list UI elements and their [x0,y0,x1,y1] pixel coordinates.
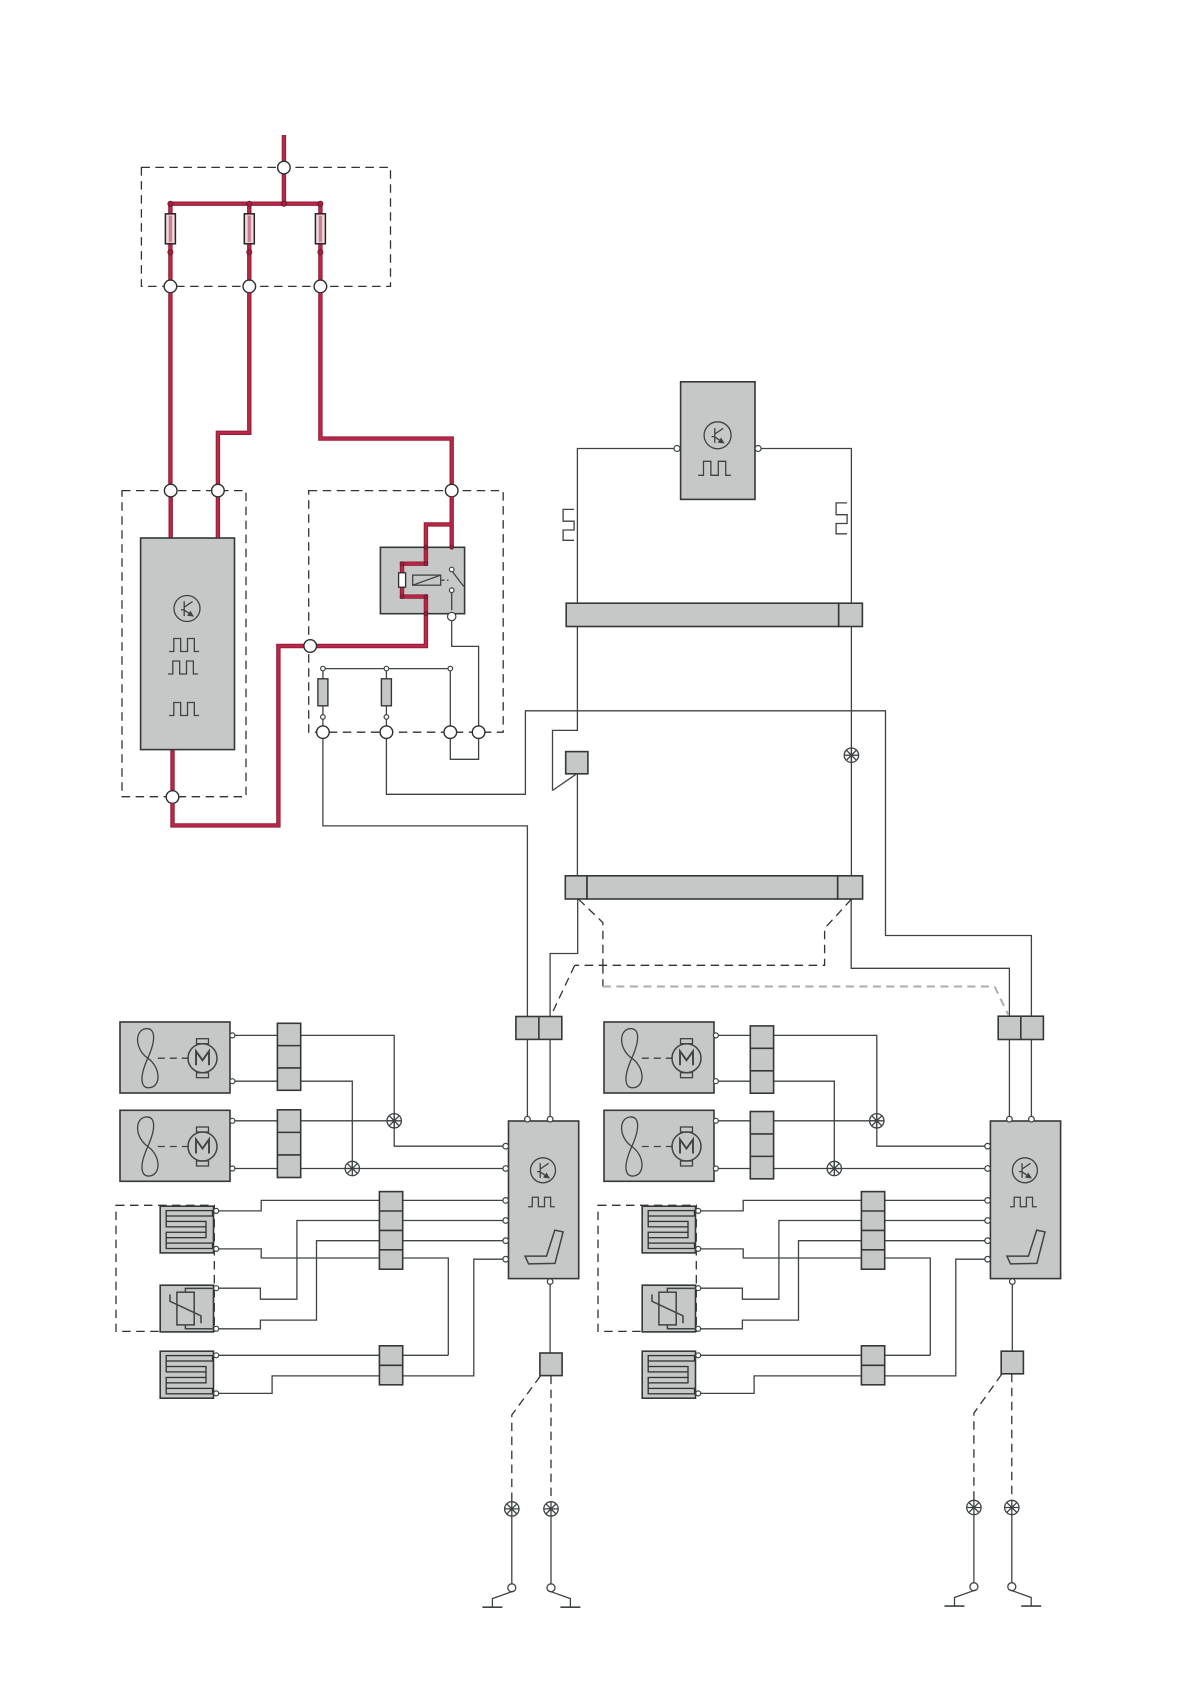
module right left pin [985,1166,991,1172]
pin left heater circuit [214,1326,219,1331]
seat switch arm [553,774,576,790]
relay junction dot [450,545,454,549]
pin left heater circuit [214,1391,219,1396]
pin right heater circuit [696,1208,701,1213]
relay junction dot [424,562,428,566]
junction dot supply bus [281,201,286,206]
wire option harness branch dark [575,899,852,965]
pin left heater circuit [214,1353,219,1358]
symbol pulse output 3 [169,703,199,716]
connector pin relay bus [444,726,457,739]
wire right ground dashed left [974,1374,1002,1500]
splice on right signal wire [844,748,858,762]
wire left ground dashed left [512,1376,541,1502]
wire left thermistor+ to module pin4 [219,1221,503,1300]
pin right fan1- [713,1079,718,1084]
symbol pulse seat module right [1010,1197,1037,1207]
pin right heater circuit [696,1391,701,1396]
thermistor left seat sensor [160,1285,213,1332]
splice right fan - join [827,1161,841,1175]
relay junction dot [400,562,404,566]
connector rail lower main segment [587,876,838,899]
symbol electronic unit seat module left [531,1158,556,1183]
wire switch to relay output pin [451,593,453,611]
wire left harness to module pin B [549,1039,551,1116]
wire bus to fuse F4 [322,670,324,679]
connector C3 left heater/sensor [379,1192,402,1270]
relay switch pin 87 [449,588,454,593]
splice left fan - join [345,1161,359,1175]
heating element right cushion [642,1351,695,1398]
wire right heater2+ feed [701,1354,931,1356]
relay junction dot [424,545,428,549]
wire fuse F4 out [322,706,324,726]
relay junction dot [424,612,428,616]
splice left ground left [505,1502,519,1516]
junction dot supply bus [247,201,252,206]
wire right signal between rails [850,627,852,876]
fuse F2 [244,214,254,244]
module left left pin [503,1256,509,1262]
wire right module ground lead [1011,1284,1013,1351]
symbol pulse output 2 [168,661,198,674]
module left top pin A [525,1116,531,1122]
module left left pin [503,1143,509,1149]
wire relay fuse bus [323,668,450,670]
wire left fan1- to splice [235,1081,352,1168]
wire right ground dashed right [1011,1374,1013,1501]
wire pin to ECU body left [168,497,172,538]
wire right heater2- to module pin6 [701,1259,985,1393]
module right left pin [985,1238,991,1244]
symbol pulse signal U2 [698,461,731,475]
pin fuse F4 out [321,715,326,720]
pin right heater circuit [696,1286,701,1291]
wire left heater1- to heater2+ [219,1249,449,1355]
module left left pin [503,1166,509,1172]
module right left pin [985,1218,991,1224]
splice right ground right [1005,1500,1019,1514]
pin U2 right [755,446,761,452]
connector pin heater feed left [317,726,330,739]
connector pair left seat harness [516,1017,562,1040]
junction dot supply bus [168,201,173,206]
climate control module U2 [681,382,755,500]
wire option into left connector [552,965,575,1014]
seat module U3 right [990,1121,1060,1279]
relay K1 body [380,547,464,613]
pin right fan1+ [713,1033,718,1038]
pin left fan2- [230,1166,235,1171]
splice left ground right [544,1502,558,1516]
wire battery feed into fuse box [282,135,286,204]
junction dot below fuse [168,250,173,255]
module right left pin [985,1143,991,1149]
wire right heater1+ to module pin3 via connector [701,1200,985,1211]
pin right fan2+ [713,1118,718,1123]
heated seat left backrest assembly (dashed) [116,1205,214,1331]
fan motor M2 right (backrest) [604,1110,714,1181]
connector rail lower right segment [838,876,863,899]
wire left fan1+ to module pin1 [235,1035,503,1146]
pin bus middle [384,666,389,671]
relay junction dot [424,595,428,599]
wire right ground left drop [973,1515,975,1583]
symbol pulse output 1 [169,639,199,652]
heated seat right backrest assembly (dashed) [598,1205,696,1331]
module left left pin [503,1238,509,1244]
relay coil element [399,573,406,587]
connector pair right seat harness [998,1016,1043,1039]
wire fuse 2 drop [247,204,251,287]
ground terminal left right [547,1584,580,1607]
relay actuator [413,575,441,585]
wire lower rail to right module enable [851,899,1009,1016]
module left left pin [503,1218,509,1224]
relay output pin [448,612,456,620]
wire right harness to module pin A [1008,1040,1010,1117]
fan motor M2 left (backrest) [120,1110,230,1181]
symbol pulse seat module left [528,1197,555,1207]
symbol electronic unit seat module right [1012,1158,1037,1183]
wire bus to fuse F5 [385,670,387,679]
pin right heater circuit [696,1326,701,1331]
connector pin heater feed right [380,726,393,739]
pin bus left [321,666,326,671]
wire left ground right drop [550,1516,552,1584]
wire left fan2- to module pin2 [235,1168,503,1170]
connector node fuse 3 out [314,280,327,293]
wire fuse F5 to right seat module supply [386,711,1031,1016]
wire right fan2+ to splice [718,1120,877,1122]
module right left pin [985,1198,991,1204]
wire rail to seat switch [553,627,578,791]
wire fuse 3 drop [318,204,322,287]
wire climate module right signal [761,449,851,604]
wire left heater2+ feed [219,1354,449,1356]
module right top pin A [1007,1116,1013,1122]
pin bus right [448,666,453,671]
seat switch contact block [566,752,588,774]
connector C1 left fan1 [277,1023,300,1090]
heating element left backrest [160,1206,213,1253]
wire left thermistor- to module pin5 [219,1241,503,1329]
pin left heater circuit [214,1286,219,1291]
wire left fan2 motor + [205,1121,235,1130]
module left left pin [503,1198,509,1204]
fuse box (dashed) [141,167,390,286]
wire fuse3 to relay [320,293,451,485]
connector pin relay output [472,726,485,739]
wire left harness to module pin A [526,1039,528,1116]
connector pin relay supply [445,484,458,497]
pin left fan1+ [230,1033,235,1038]
symbol seat icon left [525,1230,563,1264]
wire left fan1 motor + [205,1035,235,1041]
wire lower rail to left module enable [550,899,578,1017]
wire left fan2+ to splice [235,1120,394,1122]
module left top pin B [547,1116,553,1122]
connector C1 right fan1 [750,1026,773,1093]
connector pin ECU supply 2 [212,484,225,497]
ground connector block right [1001,1351,1023,1374]
control module U1 body [141,538,235,750]
fan motor M1 right (cushion) [604,1022,714,1093]
connector rail lower left segment [565,876,587,899]
fan motor M1 left (cushion) [120,1022,230,1093]
wire right fan2 motor - [689,1166,718,1169]
connector pin relay coil out [304,640,317,653]
wire supply bus [170,201,320,205]
wire fuse F5 out [385,706,387,726]
pin left fan2+ [230,1118,235,1123]
wire option harness drop [579,899,603,965]
wire right heater1- to heater2+ [701,1249,931,1355]
wire right fan2 motor + [689,1121,718,1130]
symbol seat icon right [1007,1230,1045,1264]
splice right fan + join [870,1114,884,1128]
wire right thermistor- to module pin5 [701,1241,985,1329]
wire right fan1+ to module pin1 [718,1035,985,1146]
wire fuse 1 drop [168,204,172,287]
wire relay supply to switch contact [450,497,454,567]
control module housing (dashed) [122,491,246,797]
symbol electronic unit U2 [704,422,731,449]
connector node fuse 2 out [243,280,256,293]
wire bus to connector [449,670,451,726]
fuse F3 [315,214,325,244]
ground connector block left [540,1353,562,1376]
connector node fuse 1 out [164,280,177,293]
pin fuse F5 out [384,715,389,720]
wire bridge under relay housing [450,739,478,760]
ground terminal right left [945,1583,978,1606]
junction dot supply bus [318,201,323,206]
connector C4 right cushion heater [861,1346,884,1385]
fuse F1 [165,214,175,244]
wire option harness branch gray [603,986,995,988]
wire relay output to connector [452,621,479,726]
pin right heater circuit [696,1246,701,1251]
wire option drop to gray branch [602,965,604,986]
pin U2 left [674,446,680,452]
wire right ground right drop [1011,1515,1013,1583]
relay switch arm [452,572,464,587]
wire right thermistor+ to module pin4 [701,1221,985,1300]
wire fuse2 to control module [218,293,249,485]
relay switch pin 30 [449,567,454,572]
pin right fan2- [713,1166,718,1171]
connector rail upper main segment [566,603,839,626]
wire left ground left drop [511,1516,513,1584]
fuse F4 [318,679,328,706]
heating element left cushion [160,1351,213,1398]
pin left fan1- [230,1079,235,1084]
splice right ground left [967,1500,981,1514]
connector C4 left cushion heater [379,1346,402,1385]
wire climate module left signal [577,449,674,604]
pin left heater circuit [214,1246,219,1251]
wire option into right connector [995,987,1009,1015]
wire switch to lower rail [576,774,578,876]
symbol pulse marker left wire [563,509,574,540]
wire fuse F4 to left seat module supply [323,739,528,1017]
wire left fan1 motor - [205,1077,235,1081]
module right ground pin [1010,1279,1016,1285]
module left ground pin [547,1279,553,1285]
wire fuse1 to control module [168,293,172,485]
symbol pulse marker right wire [836,503,847,534]
connector node battery feed [278,161,291,174]
wire right harness to module pin B [1030,1040,1032,1117]
wire right fan1 motor - [689,1077,718,1081]
junction dot below fuse [318,250,323,255]
seat module U3 left [509,1121,579,1279]
ground terminal left left [482,1584,515,1607]
connector C2 left fan2 [277,1110,300,1178]
wire right fan1- to splice [718,1081,834,1168]
junction dot below fuse [247,250,252,255]
splice left fan + join [387,1114,401,1128]
connector pin ECU supply 1 [164,484,177,497]
connector rail upper right segment [839,603,863,626]
wire right fan2- to module pin2 [718,1168,985,1170]
module right left pin [985,1256,991,1262]
module right top pin B [1029,1116,1035,1122]
heating element right backrest [642,1206,695,1253]
connector C2 right fan2 [750,1112,773,1179]
wire left ground dashed right [550,1376,552,1502]
thermistor right seat sensor [642,1285,695,1332]
symbol electronic unit U1 [174,596,200,622]
wire right fan1 motor + [689,1035,718,1041]
wire left fan2 motor - [205,1166,235,1169]
wire relay coil loop to ECU [173,524,452,825]
wire ECU body to ground-side pin [170,750,174,791]
connector C3 right heater/sensor [861,1192,884,1270]
wire relay coil path inside body [402,547,426,613]
wire left heater1+ to module pin3 via connector [219,1200,503,1211]
wire left heater2- to module pin6 [219,1259,503,1393]
pin left heater circuit [214,1208,219,1213]
pin right heater circuit [696,1353,701,1358]
wire left module ground lead [549,1284,551,1353]
wire pin to ECU body right [216,497,220,538]
fuse F5 [381,679,391,706]
relay junction dot [400,595,404,599]
relay housing (dashed) [309,491,504,733]
ground terminal right right [1008,1583,1041,1606]
connector pin ECU output [166,791,179,804]
